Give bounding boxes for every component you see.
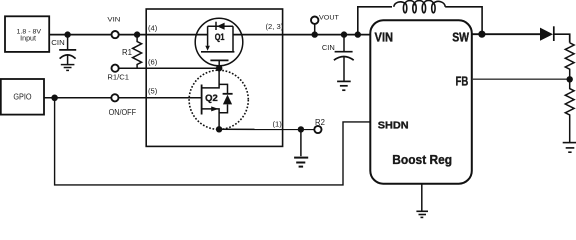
Q1 source lead [207, 26, 209, 46]
svg-text:VIN: VIN [107, 17, 120, 24]
Q2 source arrow [211, 106, 218, 111]
terminal R2 [314, 126, 321, 133]
svg-text:VIN: VIN [375, 30, 394, 44]
capacitor CIN (output) [334, 35, 354, 81]
resistor R1 [133, 35, 142, 69]
svg-text:FB: FB [456, 74, 469, 88]
boost regulator U1 [370, 20, 472, 183]
svg-text:CIN: CIN [51, 38, 64, 47]
Q2 gate bar [201, 85, 203, 115]
resistor R bottom (feedback divider) [565, 79, 574, 142]
Q2 drain lead [202, 68, 220, 88]
node CIN output junction [341, 31, 347, 37]
svg-text:SHDN: SHDN [378, 119, 409, 131]
svg-text:(4): (4) [148, 24, 158, 33]
Q1 channel bar [201, 51, 234, 53]
svg-text:Q1: Q1 [215, 32, 225, 42]
node Q2 source junction (pin 1) [216, 126, 222, 132]
wire node 6 (R1/C1 to gate) [115, 67, 219, 69]
ground (R2 node) [294, 129, 308, 166]
wire GPIO to Q2 gate (node 5) [44, 97, 202, 99]
Q1 drain lead [232, 26, 234, 52]
node gate junction (pin 6) [216, 65, 222, 71]
ground (feedback divider) [563, 143, 576, 153]
svg-text:Boost Reg: Boost Reg [392, 152, 452, 167]
node FB junction [567, 76, 573, 82]
Q1 body diode triangle [217, 23, 225, 30]
Q2 body diode cathode bar [223, 93, 233, 95]
Q1 gate lead [218, 60, 220, 68]
terminal ON/OFF [111, 94, 118, 101]
Q2 source lead [202, 109, 220, 129]
wire SHDN path from GPIO [55, 98, 371, 185]
node R1 top junction [134, 31, 140, 37]
svg-text:R1: R1 [122, 47, 132, 57]
Q1 source arrow [205, 46, 210, 51]
terminal VOUT [314, 24, 316, 35]
ground (output CIN) [337, 81, 351, 90]
svg-text:(5): (5) [148, 87, 158, 96]
load switch block box [146, 9, 282, 146]
svg-text:GPIO: GPIO [13, 93, 31, 102]
Q1 gate bar [210, 59, 228, 61]
Q2 body diode triangle [223, 95, 232, 105]
Q1 top rail [208, 25, 233, 27]
inductor L1 [358, 0, 482, 34]
Q1 body diode cathode bar [215, 22, 217, 30]
svg-text:VOUT: VOUT [319, 14, 339, 21]
wire FB [472, 78, 570, 80]
svg-text:CIN: CIN [322, 43, 335, 52]
svg-text:ON/OFF: ON/OFF [109, 108, 137, 117]
ground (boost reg) [416, 184, 428, 218]
svg-text:(1): (1) [273, 119, 283, 128]
svg-text:R1/C1: R1/C1 [107, 72, 129, 81]
wire SW to diode [472, 33, 540, 35]
ground (input CIN) [61, 65, 75, 71]
svg-text:SW: SW [452, 30, 469, 44]
resistor R top (feedback divider) [565, 43, 574, 80]
node inductor tap junction [355, 31, 361, 37]
diode D1 [540, 28, 553, 41]
wire pin 1 to R2 terminal [219, 128, 314, 130]
node R2 ground junction [298, 126, 304, 132]
GPIO box [1, 79, 44, 115]
svg-text:Q2: Q2 [205, 93, 218, 103]
svg-text:(6): (6) [148, 58, 158, 67]
node CIN input junction [64, 31, 70, 37]
node SW junction [478, 31, 485, 38]
node GPIO junction [51, 95, 58, 102]
transistor Q1 [195, 18, 243, 68]
input source box 1.8-8V [5, 16, 49, 52]
svg-text:R2: R2 [315, 117, 325, 127]
terminal VIN [112, 31, 119, 38]
wire input to Q1 source (VIN rail) [49, 34, 207, 36]
transistor Q2 [189, 68, 248, 129]
wire Q1 drain to boost VIN [233, 34, 371, 36]
svg-text:(2, 3): (2, 3) [266, 22, 284, 31]
capacitor CIN (input) [59, 35, 76, 64]
wire diode to divider [554, 34, 570, 43]
node VOUT junction [312, 31, 318, 37]
svg-text:Input: Input [20, 36, 36, 43]
Q2 body diode stubs [219, 84, 227, 112]
terminal R1/C1 [112, 65, 119, 72]
